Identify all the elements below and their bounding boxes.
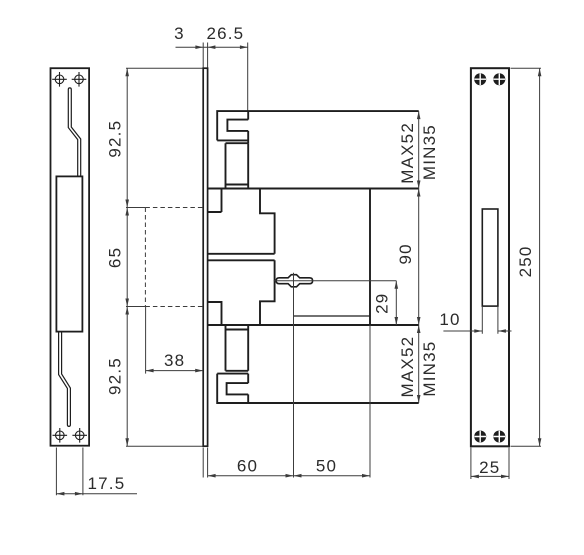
top stem <box>226 143 249 188</box>
horizontal case line lower <box>208 324 419 326</box>
svg-text:50: 50 <box>316 457 337 476</box>
50 extension <box>369 325 371 478</box>
top-left notch <box>208 189 222 213</box>
svg-text:MAX52: MAX52 <box>398 122 417 184</box>
svg-text:250: 250 <box>516 245 535 277</box>
faceplate (side) <box>203 68 207 446</box>
svg-text:MIN35: MIN35 <box>420 341 439 397</box>
screw hole top-left <box>52 72 67 87</box>
svg-text:10: 10 <box>439 310 460 329</box>
lower cranked rod <box>59 332 71 426</box>
dimension 3 and 26.5 extension lines <box>176 43 248 111</box>
svg-text:MAX52: MAX52 <box>398 336 417 398</box>
upper cranked rod <box>68 88 80 176</box>
svg-text:3: 3 <box>174 24 185 43</box>
extension bottom <box>126 445 203 447</box>
extension at 207.5 solid part <box>126 207 145 209</box>
horizontal case line upper <box>208 188 419 190</box>
dashed extension to plate at y=306.5 <box>145 306 203 308</box>
key vertical extension down to bottom dimension <box>293 288 295 478</box>
svg-text:MIN35: MIN35 <box>420 124 439 180</box>
extension top <box>126 67 203 69</box>
key cross lines <box>274 273 313 288</box>
dashed extension to plate at y=207.5 <box>145 207 203 209</box>
svg-text:90: 90 <box>396 243 415 264</box>
svg-text:26.5: 26.5 <box>206 24 244 43</box>
dimension 29 <box>395 281 397 325</box>
split lines <box>208 254 275 260</box>
top step right <box>260 189 275 254</box>
bottom-left notch <box>208 302 222 325</box>
svg-text:65: 65 <box>106 247 125 268</box>
left faceplate outline <box>51 68 90 446</box>
dashed vertical <box>144 208 146 307</box>
right dimension chain MAX52/MIN35, 90 <box>418 111 420 403</box>
svg-text:29: 29 <box>373 293 392 314</box>
strike plate outline <box>471 68 509 446</box>
screws (filled) <box>474 73 505 442</box>
dimension 250 <box>511 68 542 446</box>
screw hole top-right <box>72 72 87 87</box>
svg-text:38: 38 <box>164 351 185 370</box>
svg-text:92.5: 92.5 <box>106 120 125 158</box>
bottom hook clamp <box>226 370 249 372</box>
dimension line for 3 / 26.5 <box>176 46 248 48</box>
strike cutout <box>482 209 498 306</box>
svg-text:92.5: 92.5 <box>106 357 125 395</box>
extension at 306.5 solid part <box>126 306 145 308</box>
slider plate rectangle <box>56 176 82 331</box>
case right edge <box>369 189 371 326</box>
dimension 38 <box>146 307 203 374</box>
dimension 17.5 <box>56 448 137 496</box>
spindle key shape <box>276 275 312 287</box>
inner ledge line <box>294 315 371 317</box>
dimension 25 <box>471 448 509 480</box>
leader to 29 dim <box>313 280 397 282</box>
dimension 10 (cutout width) <box>443 306 511 334</box>
svg-text:17.5: 17.5 <box>88 474 126 493</box>
arrow tips <box>195 45 203 49</box>
svg-text:25: 25 <box>479 458 500 477</box>
bottom stem <box>226 325 249 371</box>
lock case body <box>208 111 419 403</box>
lower part of body right edge <box>260 260 275 325</box>
svg-text:60: 60 <box>237 457 258 476</box>
bottom dimension 60 / 50 <box>203 448 370 478</box>
screw hole bottom-left <box>53 428 68 443</box>
top hook clamp <box>217 111 419 140</box>
screw hole bottom-right <box>72 428 87 443</box>
left dimension chain 92.5 / 65 / 92.5 <box>126 68 203 446</box>
